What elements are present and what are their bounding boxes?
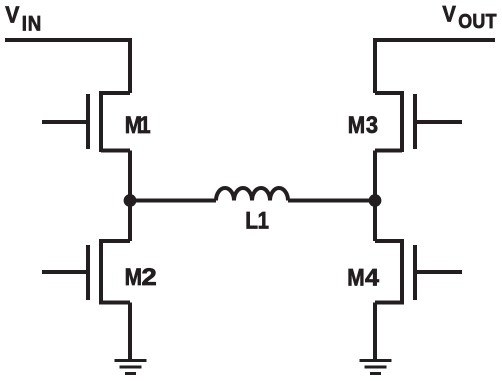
svg-text:1: 1 [139,111,150,138]
wire node A to M2 drain [128,201,132,242]
wire M1 source to node A [128,151,132,201]
transistor M3 [375,91,462,152]
transistor M2 [42,239,130,305]
node B [369,194,382,207]
svg-text:1: 1 [258,207,269,234]
svg-text:V: V [442,3,455,27]
label M4 [347,264,379,291]
wire node A to inductor [130,199,216,203]
svg-text:IN: IN [22,12,42,35]
svg-text:2: 2 [142,264,157,290]
svg-text:4: 4 [365,265,379,291]
svg-text:L: L [245,207,258,234]
transistor M1 [42,91,130,152]
wire node B to M4 drain [373,201,377,242]
wire inductor to node B [288,199,375,203]
label M3 [348,111,378,138]
label VIN [5,2,42,36]
svg-text:3: 3 [366,111,378,138]
inductor L1 [216,188,288,201]
wire M4 source to ground [373,303,377,360]
svg-text:M: M [347,264,364,291]
label M1 [125,111,151,138]
label L1 [245,207,269,234]
label VOUT [442,3,496,34]
svg-text:M: M [348,112,365,139]
wire VOUT top rail [375,40,495,93]
svg-text:V: V [5,2,19,28]
wire M2 source to ground [128,303,132,360]
svg-text:OUT: OUT [458,11,497,33]
transistor M4 [375,239,462,305]
wire M3 source to node B [373,151,377,201]
ground (right) [360,361,392,374]
node A [124,194,137,207]
svg-text:M: M [125,263,142,290]
label M2 [125,263,157,290]
wire VIN top rail [5,40,130,93]
ground (left) [115,361,147,374]
